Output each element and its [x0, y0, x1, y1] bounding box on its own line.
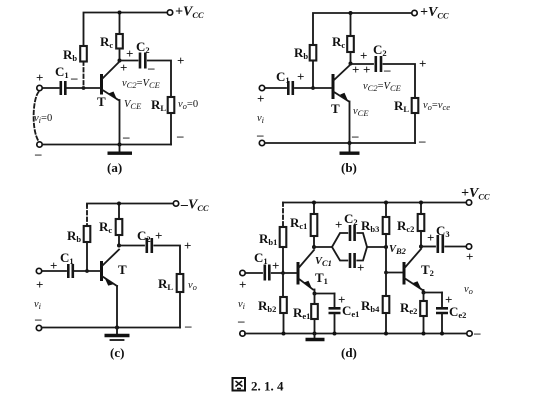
resistor Rc (c) [116, 219, 123, 235]
wire: input terminal to C1 (a) [42, 87, 59, 89]
terminal: bottom right (d) [467, 331, 472, 336]
transistor T1 emitter line (d) [299, 279, 313, 290]
svg-text:Rb2: Rb2 [258, 298, 276, 314]
node: Rb2 bottom junction (d) [282, 332, 286, 336]
wire: Rb3 lower lead (d) [385, 234, 387, 247]
wire: C1 to T1 base (d) [272, 272, 297, 274]
svg-text:Rb: Rb [294, 45, 308, 61]
wire: top supply rail (d) [283, 202, 467, 204]
transistor T emitter arrow (b) [340, 93, 349, 102]
capacitor C1 (b) [288, 81, 293, 95]
node: Rb-base junction (a) [82, 86, 86, 90]
ground stub (a) [119, 145, 121, 153]
capacitor C2 upper plates (d) [350, 225, 355, 241]
svg-text:T: T [118, 262, 127, 277]
transistor T base bar (b) [332, 74, 335, 99]
resistor Rb (a) [80, 46, 87, 62]
wire: Rb4 upper lead (d) [385, 273, 387, 297]
svg-text:+VCC: +VCC [420, 5, 449, 21]
svg-text:(a): (a) [107, 160, 122, 175]
svg-text:vo=vce: vo=vce [423, 100, 450, 112]
capacitor C2 upper path (d) [332, 233, 347, 247]
wire: Rc lower lead (c) [118, 235, 120, 246]
wire: emitter to bottom rail (b) [349, 102, 351, 144]
resistor Rb4 (d) [383, 296, 390, 313]
node: Re2 bottom junction (d) [422, 332, 426, 336]
terminal: input + (b) [259, 85, 264, 90]
wire: node to C2 left plate (a) [120, 60, 138, 62]
node: collector node (b) [349, 62, 353, 66]
node: vC1 node (d) [312, 245, 316, 249]
wire: RL lower lead (c) [179, 292, 181, 328]
node: top rail junction Rb3 (d) [384, 201, 388, 205]
svg-text:+: + [297, 69, 304, 84]
node: T1 emitter node (d) [313, 292, 317, 296]
transistor T emitter arrow PNP (c) [104, 277, 114, 286]
svg-text:+: + [36, 277, 43, 292]
svg-text:+: + [184, 238, 191, 253]
wire: Ce2 upper lead (d) [441, 293, 443, 308]
capacitor C2 (b) [376, 56, 381, 72]
wire: input terminal to C1 (d) [245, 272, 262, 274]
wire: Rb1 lower lead (d) [282, 247, 284, 273]
svg-text:Rb: Rb [67, 228, 81, 244]
wire: Rc lower lead (a) [119, 49, 121, 61]
node: top rail junction Rc2 (d) [419, 201, 423, 205]
svg-text:–: – [34, 146, 42, 161]
wire: Rb2 upper lead (d) [282, 273, 284, 297]
svg-text:T2: T2 [421, 262, 434, 278]
capacitor C3 (d) [438, 235, 443, 253]
resistor Rb3 (d) [383, 217, 390, 234]
wire: Rb1 upper lead dashed (d) [282, 203, 284, 228]
svg-text:–: – [147, 60, 155, 75]
svg-text:Ce1: Ce1 [342, 303, 359, 319]
svg-text:+VCC: +VCC [175, 5, 204, 21]
svg-text:vi=0: vi=0 [34, 113, 52, 125]
svg-text:(b): (b) [341, 160, 357, 175]
svg-text:–: – [184, 318, 192, 333]
node: Rb4 bottom junction (d) [384, 332, 388, 336]
wire: bottom rail (b) [265, 142, 415, 144]
resistor Rb2 (d) [280, 297, 287, 313]
wire: VB2 node down to base junction (d) [385, 247, 387, 273]
ground bar (c) [105, 334, 130, 337]
wire: base wire (b) [295, 87, 332, 89]
wire: Ce1 lower lead (d) [334, 314, 336, 334]
svg-text:+: + [257, 91, 264, 106]
svg-text:–: – [122, 129, 130, 144]
svg-text:+: + [357, 260, 364, 275]
svg-text:C2: C2 [373, 42, 387, 58]
node: top rail junction (a) [118, 11, 122, 15]
node: collector node (a) [118, 59, 122, 63]
wire: C3 to output terminal (d) [445, 246, 466, 248]
svg-text:–: – [473, 325, 481, 340]
resistor RL (b) [412, 98, 419, 113]
terminal: input - (c) [36, 325, 41, 330]
wire: Re2 upper lead (d) [423, 293, 425, 302]
node: T2 emitter node (d) [422, 291, 426, 295]
svg-text:+: + [427, 230, 434, 245]
svg-text:RL: RL [158, 276, 173, 292]
svg-text:T: T [331, 101, 340, 116]
svg-text:–: – [34, 311, 42, 326]
resistor Rb (b) [310, 45, 317, 61]
svg-text:–: – [418, 133, 426, 148]
svg-text:+: + [36, 70, 43, 85]
svg-text:VB2: VB2 [389, 244, 407, 256]
resistor Rb (c) [84, 226, 91, 242]
node: Ce1 bottom junction (d) [333, 332, 337, 336]
wire: Rc upper lead (a) [119, 13, 121, 35]
wire: node to C2 left plate (c) [119, 245, 144, 247]
resistor Rc1 (d) [311, 214, 318, 236]
node: top rail junction (c) [117, 202, 121, 206]
terminal: input + (a) [37, 85, 42, 90]
svg-text:RL: RL [394, 98, 409, 114]
terminal: +Vcc terminal (b) [412, 10, 417, 15]
svg-text:C1: C1 [55, 64, 69, 80]
wire: emitter to bottom rail (c) [116, 286, 118, 328]
ground bar (a) [108, 151, 133, 154]
transistor T2 emitter arrow (d) [413, 281, 422, 290]
terminal: input + (c) [36, 268, 41, 273]
capacitor Ce2 (d) [436, 308, 448, 313]
capacitor C2 upper right path (d) [357, 233, 367, 247]
terminal: output (d) [466, 244, 471, 249]
capacitor Ce1 (d) [329, 308, 341, 313]
node: collector node (c) [117, 244, 121, 248]
transistor T2 emitter line (d) [405, 279, 423, 291]
wire: Rb lower lead (b) [312, 61, 314, 89]
capacitor C1 (c) [68, 264, 73, 278]
svg-text:–: – [351, 128, 359, 143]
node: top rail junction (b) [349, 11, 353, 15]
svg-text:VCE: VCE [124, 99, 142, 111]
ground stub (d) [314, 334, 316, 339]
transistor T collector line (b) [334, 65, 351, 81]
ground bar (d) [306, 338, 325, 341]
svg-text:VC1: VC1 [315, 256, 332, 268]
svg-text:+VCC: +VCC [461, 186, 490, 202]
ground stub (c) [116, 328, 118, 335]
wire: T1 emitter down to node (d) [314, 290, 316, 294]
svg-text:+: + [352, 62, 359, 77]
node: Rb1-base junction (d) [281, 271, 285, 275]
svg-text:vo: vo [188, 280, 197, 292]
resistor Re2 (d) [420, 301, 427, 316]
wire: collector node to C3 (d) [421, 246, 435, 248]
svg-text:C3: C3 [436, 223, 450, 239]
wire: lens right tip to VB2 node (d) [367, 246, 386, 248]
wire: RL lower lead (b) [414, 113, 416, 143]
svg-text:Rb3: Rb3 [361, 218, 379, 234]
transistor T base bar (c) [100, 261, 103, 281]
transistor T emitter line (b) [334, 92, 349, 102]
transistor T emitter line (a) [103, 90, 119, 100]
svg-text:Rc: Rc [100, 34, 113, 50]
svg-text:Rc1: Rc1 [290, 215, 307, 231]
node: emitter bottom junction (b) [348, 141, 352, 145]
svg-text:vC2=VCE: vC2=VCE [122, 78, 161, 90]
terminal: input - (b) [259, 140, 264, 145]
transistor T2 collector line (d) [405, 249, 421, 268]
wire: bottom rail (a) [43, 144, 172, 146]
svg-text:+: + [466, 249, 473, 264]
wire: C2 right to output corner (a) [148, 61, 171, 98]
resistor Rc (a) [116, 34, 123, 49]
wire: Rc lower lead (b) [350, 52, 352, 64]
svg-text:+: + [419, 56, 426, 71]
wire: Re2 lower lead (d) [423, 316, 425, 334]
capacitor C1 (d) [265, 265, 270, 281]
svg-text:C2: C2 [344, 211, 358, 227]
wire: top supply rail (c) [87, 204, 174, 207]
svg-text:vo: vo [464, 284, 473, 296]
svg-text:Rb: Rb [63, 47, 77, 63]
wire: Rc upper lead (c) [118, 204, 120, 220]
transistor T emitter line (c) [103, 277, 118, 287]
transistor T1 emitter arrow (d) [304, 281, 313, 290]
wire: Ce1 upper lead (d) [334, 294, 336, 308]
wire: emitter node to Ce1 branch (d) [315, 293, 335, 295]
wire: bottom rail (c) [42, 327, 181, 329]
svg-text:Rb1: Rb1 [259, 231, 277, 247]
transistor T emitter arrow (a) [109, 92, 118, 101]
svg-text:2. 1. 4: 2. 1. 4 [251, 379, 284, 394]
svg-text:+: + [155, 228, 162, 243]
wire: Rc upper lead (b) [350, 13, 352, 36]
svg-text:Rb4: Rb4 [361, 298, 380, 314]
wire: base wire (c) [74, 270, 100, 272]
svg-text:vo=0: vo=0 [178, 99, 198, 111]
wire: Rc2 upper lead (d) [420, 203, 422, 215]
svg-text:+: + [272, 258, 279, 273]
svg-text:Re2: Re2 [400, 300, 417, 316]
svg-text:+: + [177, 53, 184, 68]
node: emitter bottom junction (a) [118, 143, 122, 147]
svg-text:Ce2: Ce2 [449, 304, 466, 320]
node: T2 collector node (d) [419, 245, 423, 249]
resistor Re1 (d) [311, 304, 318, 319]
terminal: input - (a) [37, 142, 42, 147]
terminal: -Vcc terminal (c) [173, 201, 178, 206]
svg-text:Rc2: Rc2 [397, 218, 414, 234]
transistor T collector line (a) [103, 62, 120, 79]
svg-text:T1: T1 [315, 270, 328, 286]
capacitor C2 lower path (d) [332, 247, 347, 261]
wire: Ce2 lower lead (d) [441, 314, 443, 334]
wire: Rb lower lead (c) [86, 242, 88, 271]
node: emitter bottom junction (c) [115, 326, 119, 330]
terminal: +Vcc terminal (d) [466, 200, 471, 205]
wire: Rc1 upper lead (d) [313, 203, 315, 215]
wire: Rb2 lower lead (d) [283, 313, 285, 334]
svg-text:+: + [335, 217, 342, 232]
wire: Re1 upper lead (d) [314, 294, 316, 305]
svg-text:+: + [363, 62, 370, 77]
wire: top supply rail (a) [84, 13, 169, 47]
wire: emitter to bottom rail (a) [119, 100, 121, 145]
terminal: input + (d) [240, 270, 245, 275]
wire: Rb lower lead dashed (a) [83, 62, 85, 87]
source dashed arc (a) [34, 92, 39, 141]
svg-text:–VCC: –VCC [180, 198, 209, 214]
wire: RL lower lead (a) [170, 113, 172, 145]
svg-text:+: + [120, 60, 127, 75]
wire: Rb upper lead dashed (c) [86, 205, 88, 227]
svg-text:C1: C1 [254, 250, 268, 266]
svg-text:RL: RL [151, 97, 166, 113]
wire: T2 emitter down to node (d) [423, 290, 425, 293]
ground stub (b) [349, 143, 351, 152]
resistor Rc (b) [347, 36, 354, 52]
svg-text:Re1: Re1 [293, 305, 310, 321]
resistor Rc2 (d) [418, 214, 425, 231]
svg-text:–: – [70, 70, 78, 85]
capacitor C1 (a) [61, 81, 66, 95]
transistor T2 base bar (d) [403, 262, 406, 285]
wire: Re1 lower lead (d) [314, 319, 316, 334]
svg-text:C1: C1 [276, 69, 290, 85]
capacitor C2 lower right path (d) [357, 247, 367, 261]
node: Rb-base junction (c) [85, 269, 89, 273]
svg-text:Rc: Rc [99, 219, 112, 235]
transistor T1 collector line (d) [299, 250, 314, 268]
transistor T base bar (a) [100, 74, 103, 95]
svg-text:C2: C2 [137, 228, 151, 244]
capacitor C2 (a) [140, 53, 145, 69]
wire: Rc2 lower lead (d) [420, 231, 422, 247]
caption hanzi TU (drawn) [233, 378, 246, 391]
svg-text:Rc: Rc [332, 34, 345, 50]
node: Ce2 bottom junction (d) [440, 332, 444, 336]
wire: base wire T2 (d) [386, 272, 403, 274]
wire: Rc1 lower lead (d) [313, 236, 315, 247]
node: Rb-base junction (b) [311, 86, 315, 90]
wire: node to C2 left plate (b) [351, 63, 374, 65]
wire: Rb3 upper lead (d) [385, 203, 387, 218]
svg-text:+: + [126, 46, 133, 61]
transistor T1 base bar (d) [297, 262, 300, 285]
svg-text:C2: C2 [136, 39, 150, 55]
ground bar 2 (c) [111, 339, 124, 341]
terminal: input - (d) [240, 331, 245, 336]
svg-text:vi: vi [238, 299, 246, 311]
svg-text:vi: vi [257, 113, 265, 125]
wire: C2 right to output corner (b) [384, 64, 416, 98]
node: T2 base junction (d) [384, 271, 388, 275]
svg-text:vC2=VCE: vC2=VCE [363, 81, 402, 93]
svg-text:–: – [176, 128, 184, 143]
terminal: +Vcc terminal (a) [167, 10, 172, 15]
wire: input terminal to C1 (b) [265, 87, 286, 89]
svg-text:+: + [360, 48, 367, 63]
svg-text:vCE: vCE [353, 106, 369, 118]
svg-text:(c): (c) [110, 345, 124, 360]
svg-text:(d): (d) [341, 345, 357, 360]
transistor T collector line (c) [103, 250, 120, 266]
wire: emitter node to Ce2 branch (d) [424, 292, 443, 294]
resistor RL (c) [177, 274, 184, 292]
node: top rail junction Rc1 (d) [312, 201, 316, 205]
svg-text:vi: vi [34, 299, 42, 311]
wire: top supply rail (b) [313, 13, 412, 45]
svg-text:+: + [239, 277, 246, 292]
wire: bottom rail (d) [245, 333, 467, 335]
ground bar (b) [340, 151, 360, 154]
wire: input terminal to C1 (c) [42, 270, 67, 272]
resistor RL (a) [168, 97, 175, 113]
node: Re1 bottom junction (d) [313, 332, 317, 336]
svg-text:–: – [237, 313, 245, 328]
node: VB2 node (d) [384, 245, 388, 249]
wire: Rb4 lower lead (d) [385, 313, 387, 334]
wire: base wire (a) [67, 87, 101, 89]
wire: vC1 node to C2 lens left tip (d) [314, 246, 332, 248]
capacitor C2 (c) [147, 238, 152, 253]
wire: C2 right to output corner (c) [154, 246, 180, 275]
capacitor C2 lower plates (d) [350, 253, 355, 268]
svg-text:T: T [97, 94, 106, 109]
svg-text:C1: C1 [60, 250, 74, 266]
resistor Rb1 (d) [280, 227, 287, 247]
